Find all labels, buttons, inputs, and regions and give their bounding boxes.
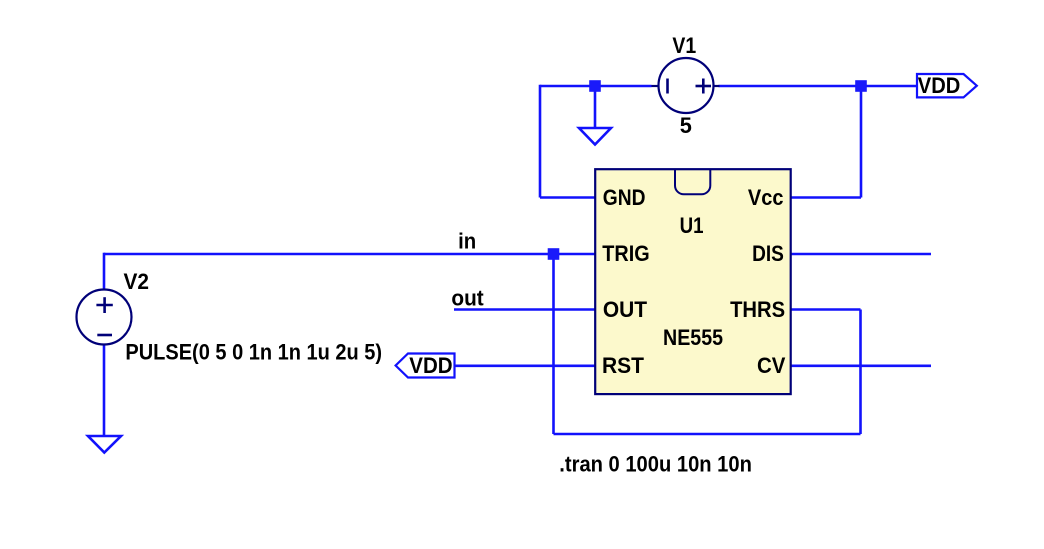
svg-text:V2: V2 <box>124 269 150 294</box>
svg-text:5: 5 <box>680 113 692 138</box>
svg-text:DIS: DIS <box>752 241 784 266</box>
svg-text:NE555: NE555 <box>663 325 723 350</box>
svg-text:out: out <box>451 285 484 310</box>
svg-text:V1: V1 <box>672 33 696 58</box>
svg-text:U1: U1 <box>680 213 704 238</box>
svg-text:THRS: THRS <box>730 297 785 322</box>
svg-text:CV: CV <box>757 353 786 378</box>
svg-text:PULSE(0 5 0 1n 1n 1u 2u 5): PULSE(0 5 0 1n 1n 1u 2u 5) <box>125 340 382 365</box>
svg-text:VDD: VDD <box>918 73 961 98</box>
svg-text:Vcc: Vcc <box>748 185 784 210</box>
svg-text:in: in <box>458 229 476 254</box>
svg-text:GND: GND <box>603 185 646 210</box>
svg-text:TRIG: TRIG <box>602 241 649 266</box>
svg-text:OUT: OUT <box>603 297 648 322</box>
svg-text:VDD: VDD <box>409 353 452 378</box>
svg-text:.tran 0 100u 10n 10n: .tran 0 100u 10n 10n <box>559 452 752 477</box>
svg-text:RST: RST <box>602 353 645 378</box>
